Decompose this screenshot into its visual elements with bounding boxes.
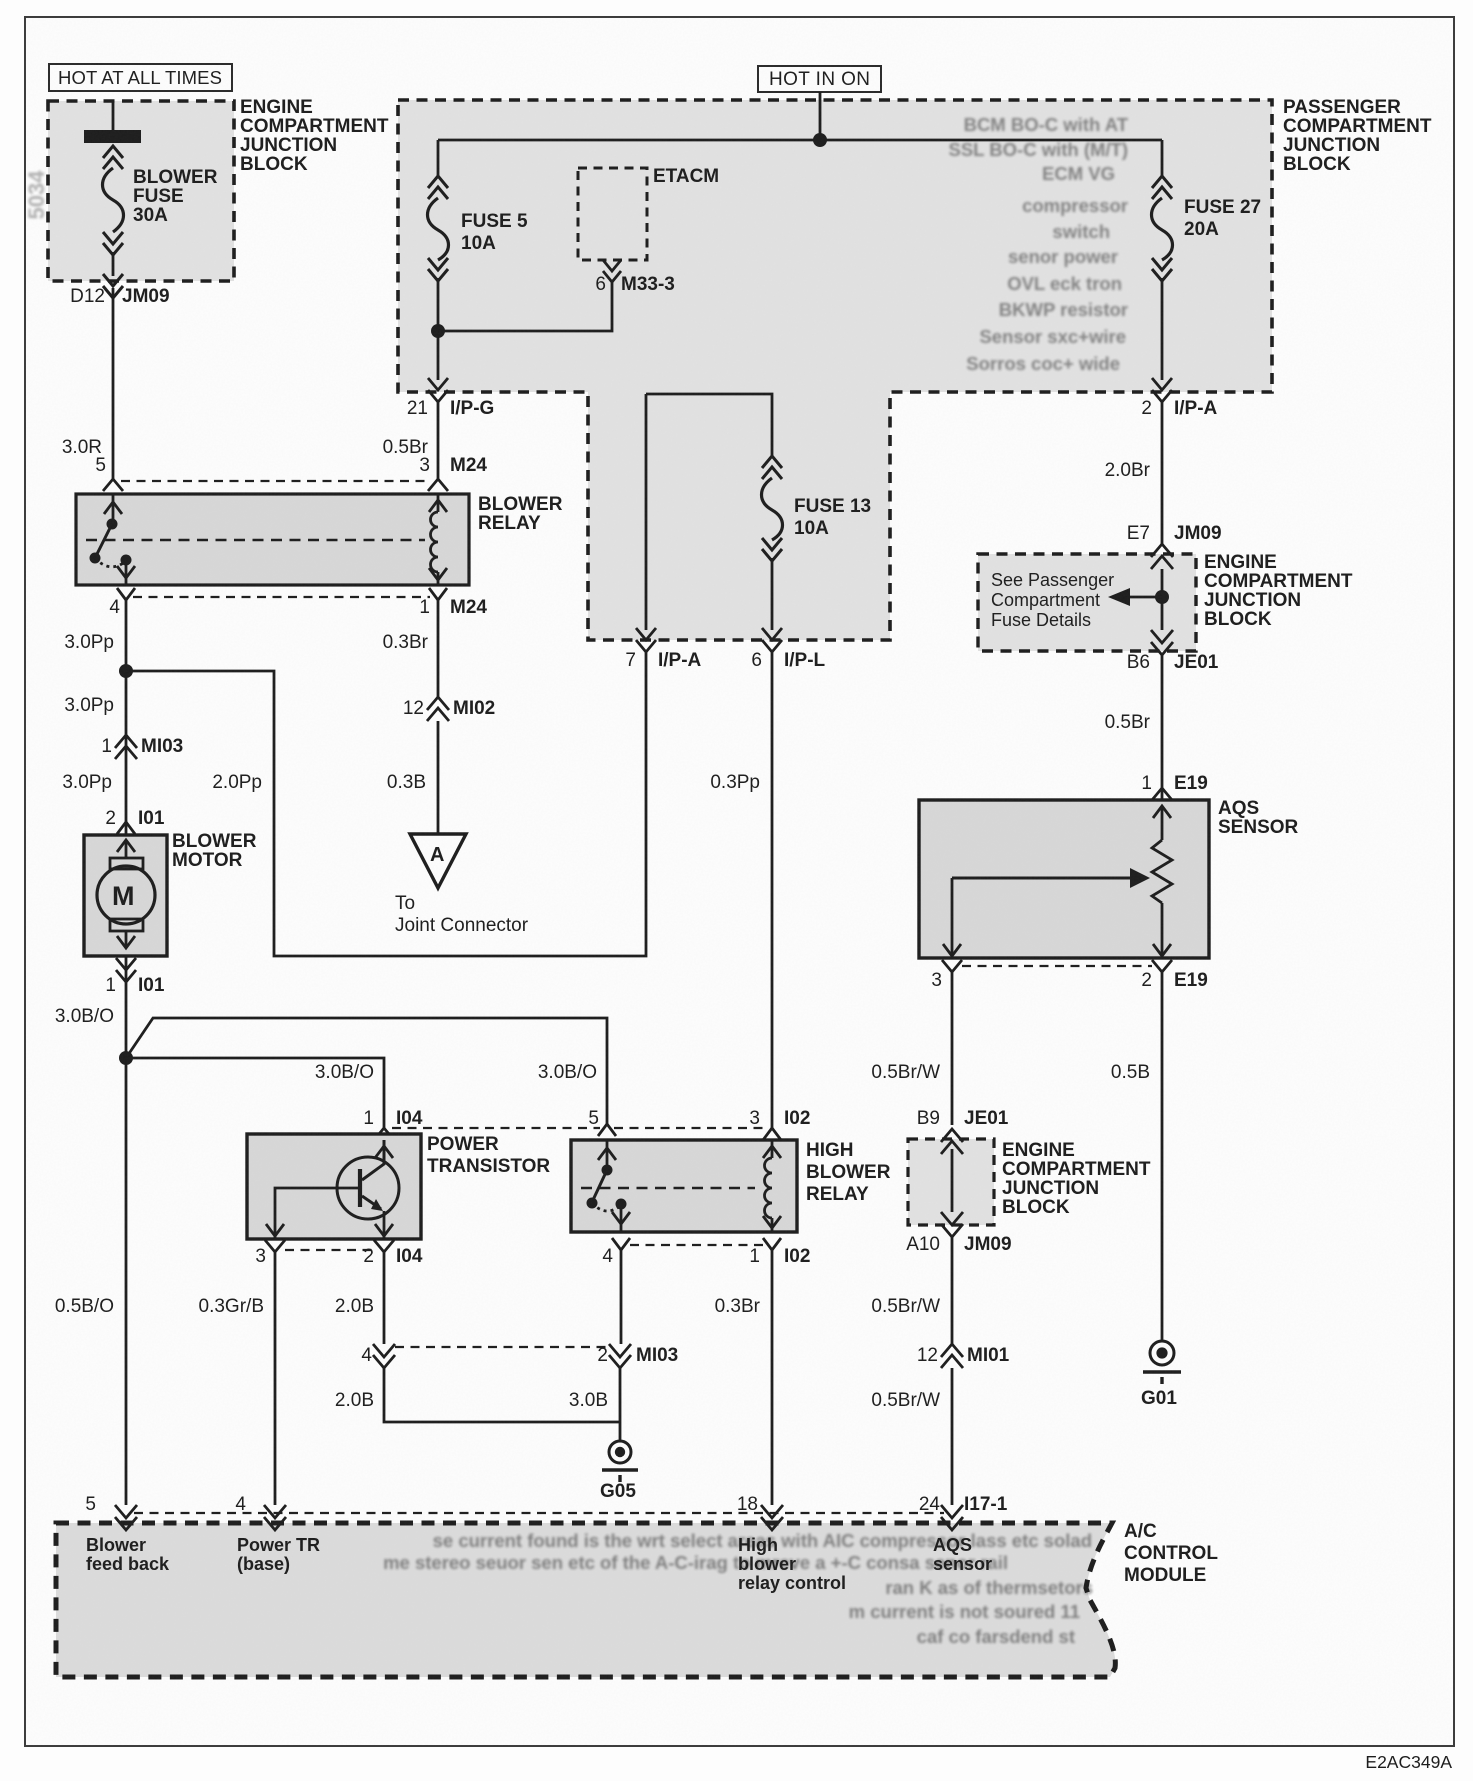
wire 0.5B pin2 down to G01 — [1161, 972, 1164, 1340]
fuse 5 10A — [428, 140, 449, 331]
connector B9 chevrons — [941, 1129, 963, 1154]
label ENGINE COMPARTMENT JUNCTION BLOCK — [1002, 1140, 1151, 1218]
label See Passenger Compartment Fuse Details — [991, 570, 1114, 630]
label 0.3Pp — [710, 772, 760, 793]
junction node 3.0B/O — [119, 1051, 133, 1065]
fuse 13 branch top wire — [646, 394, 772, 456]
wire M24 pin1 to MI02 to joint connector — [437, 600, 440, 834]
label 7 I/P-A 6 I/P-L — [625, 650, 825, 671]
pin 6 I/P-L exit — [762, 628, 782, 652]
wire 0.5Br 21 to relay pin3 — [437, 402, 440, 480]
label 0.5Br/W 0.5B — [871, 1062, 1150, 1083]
label G01 — [1141, 1388, 1177, 1409]
high blower relay lower pin dashed row — [630, 1244, 763, 1246]
junction node in block — [1155, 590, 1169, 604]
label 2.0Br — [1105, 460, 1151, 481]
connector 1 E19 — [1141, 773, 1207, 794]
label 2.0B 3.0B — [335, 1390, 608, 1411]
transistor lower pin dashed row — [285, 1249, 374, 1251]
label Blower feed back — [86, 1535, 170, 1574]
module pin 4 chevrons — [264, 1505, 286, 1530]
label BLOWER FUSE 30A — [133, 167, 218, 226]
high blower relay switch — [587, 1140, 631, 1232]
high blower relay pin 5 chevron — [598, 1124, 616, 1136]
wire 0.5Br/W down to module pin 24 — [951, 1368, 954, 1505]
label 4 1 M24 — [109, 597, 487, 618]
engine compartment junction block (see passenger) — [978, 554, 1196, 651]
wire 2.0Pp branch to pin7 I/P-A — [126, 652, 646, 956]
wire fuse5 node to pin 21 — [437, 331, 440, 380]
pin 2 E19 exit chevron — [1152, 960, 1172, 972]
label AQS SENSOR — [1218, 798, 1299, 838]
pin 4 exit chevron — [612, 1238, 630, 1250]
module pin 5 chevrons — [115, 1505, 137, 1530]
connector A10 JM09 — [941, 1212, 963, 1237]
connector MI02 — [427, 697, 449, 721]
label 4 1 I02 — [602, 1246, 810, 1267]
passenger compartment junction block region — [398, 100, 1272, 640]
label A/C CONTROL MODULE — [1124, 1521, 1218, 1586]
label 0.5B/O 5 — [55, 1296, 114, 1515]
power transistor box — [247, 1134, 421, 1239]
label FUSE 5 10A — [461, 211, 528, 254]
blower fuse 30A — [84, 101, 141, 298]
AQS lower pin dashed row — [962, 965, 1152, 967]
label A10 JM09 — [906, 1234, 1011, 1255]
power transistor pin row dashed — [392, 1127, 764, 1129]
pin 2 I/P-A exit — [1152, 378, 1172, 402]
pin 1 I02 exit chevron — [763, 1238, 781, 1250]
AQS sensor internals — [943, 806, 1172, 958]
HOT IN ON tag — [758, 66, 881, 92]
wire 3.0B/O to high blower relay pin5 — [126, 1018, 607, 1124]
junction node 3.0Pp branch — [119, 664, 133, 678]
pin 1 I01 exit — [116, 958, 136, 982]
wire 2.0Br pin2 I/P-A down — [1161, 402, 1164, 545]
connector 4 / 2 MI03 dashed row — [395, 1346, 608, 1348]
label BLOWER MOTOR — [172, 831, 257, 871]
label ETACM — [653, 166, 719, 187]
label High blower relay control — [738, 1535, 846, 1593]
label 1 MI03 — [101, 736, 183, 757]
label 21 I/P-G — [407, 398, 494, 419]
connector D12 JM09 — [70, 286, 169, 307]
pin 7 I/P-A exit — [636, 628, 656, 652]
label 3 2 I04 — [255, 1246, 422, 1267]
ground G05 — [602, 1441, 638, 1482]
bus wire — [438, 139, 1162, 142]
label 3.0B/O — [55, 1006, 114, 1027]
label 2 I/P-A — [1141, 398, 1217, 419]
relay mid dashed line — [86, 539, 425, 541]
pin 1 I04 connector — [363, 1108, 422, 1129]
blower relay pin row dashed — [121, 480, 430, 482]
label 5 3 I02 — [588, 1108, 810, 1129]
label 3 2 E19 — [931, 970, 1207, 991]
wire 2.0B pin2 down — [383, 1252, 386, 1344]
blower motor symbol — [97, 840, 155, 948]
diagram code E2AC349A — [1365, 1752, 1452, 1772]
wire 3.0B/O to power transistor pin1 — [126, 1058, 384, 1128]
label 0.3Gr/B 2.0B 4 — [199, 1296, 374, 1515]
connector E7 chevrons — [1151, 544, 1173, 569]
label B6 JE01 — [1127, 652, 1219, 673]
pin 21 I/P-G exit — [428, 378, 448, 402]
label 6 M33-3 — [595, 274, 674, 295]
wire from HOT IN ON to bus — [819, 92, 822, 140]
wire 3.0B to ground G05 — [619, 1368, 622, 1441]
label 12 MI01 — [917, 1345, 1010, 1366]
label 3.0B/O 3.0B/O — [315, 1062, 597, 1083]
module pin 24 chevrons — [941, 1505, 963, 1530]
connector 6 M33-3 — [603, 260, 621, 282]
wire 2.0B to ground join — [384, 1368, 620, 1422]
label Power TR (base) — [237, 1535, 320, 1574]
wire relay pin4 down — [125, 600, 128, 1505]
transistor exit chevrons pins 3 and 2 — [265, 1224, 394, 1252]
connector 4 chevrons — [373, 1344, 395, 1368]
label 3.0Pp 3.0Pp 2.0Pp — [62, 695, 262, 793]
label G05 — [600, 1481, 636, 1502]
label PASSENGER COMPARTMENT JUNCTION BLOCK — [1283, 97, 1432, 175]
wire pin4 3.0B to MI03 — [620, 1250, 623, 1344]
connector 2 I01 — [105, 808, 164, 829]
wire through block — [951, 1149, 954, 1212]
label A — [430, 844, 444, 866]
label 0.5Br/W — [871, 1296, 940, 1317]
label ENGINE COMPARTMENT JUNCTION BLOCK — [240, 97, 389, 175]
label ENGINE COMPARTMENT JUNCTION BLOCK — [1204, 552, 1353, 630]
high blower relay pin 3 I02 chevron — [763, 1128, 781, 1140]
label 0.3B — [387, 772, 426, 793]
label 3.0Pp 0.3Br — [64, 632, 428, 653]
high blower relay mid dashed line — [581, 1187, 755, 1189]
label FUSE 13 10A — [794, 496, 871, 539]
label 0.5Br 3 M24 — [383, 437, 488, 476]
label HOT IN ON — [769, 69, 870, 90]
label 4 2 MI03 — [361, 1345, 678, 1366]
junction node on bus — [813, 133, 827, 147]
label 0.3Br 18 — [715, 1296, 761, 1515]
AQS sensor box — [919, 800, 1209, 958]
blower relay box — [76, 494, 469, 585]
wire through block — [1161, 569, 1164, 630]
label AQS sensor — [933, 1535, 992, 1574]
module pin 18 chevrons — [761, 1505, 783, 1530]
label 3.0R 5 — [62, 437, 106, 476]
junction node fuse5/M33-3 — [431, 324, 445, 338]
blower relay pin 5 chevron — [103, 479, 123, 491]
label To Joint Connector — [395, 893, 529, 936]
HOT AT ALL TIMES tag — [49, 64, 232, 91]
fuse 13 10A — [762, 456, 783, 630]
engine compartment junction block (B9/A10) — [908, 1139, 994, 1225]
label HOT AT ALL TIMES — [58, 67, 222, 88]
connector E7 JM09 — [1127, 523, 1222, 544]
relay switch — [90, 494, 136, 585]
engine compartment junction block (top-left) — [48, 101, 234, 281]
A/C control module body — [56, 1523, 1115, 1677]
wire I/P-L pin6 to high blower relay pin3 — [771, 652, 774, 1128]
wire 0.5Br/W down — [951, 1237, 954, 1344]
label POWER TRANSISTOR — [427, 1134, 550, 1177]
high blower relay box — [571, 1140, 797, 1232]
high blower relay coil — [763, 1140, 781, 1232]
pin 1 connector — [429, 588, 447, 600]
connector 1 MI03 — [115, 735, 137, 759]
wire 0.5Br to AQS pin1 — [1161, 655, 1164, 800]
wire pin1 0.3Br down to module pin 18 — [771, 1250, 774, 1505]
label 0.5Br/W 24 I17-1 — [871, 1390, 1007, 1515]
label HIGH BLOWER RELAY — [806, 1140, 891, 1205]
wire 0.3Gr/B pin3 down to module pin 4 — [274, 1252, 277, 1505]
ETACM box — [578, 168, 647, 260]
connector B6 JE01 — [1151, 630, 1173, 655]
connector 12 MI01 — [941, 1344, 963, 1368]
blower motor box — [84, 835, 167, 956]
fuse 27 20A — [1152, 140, 1173, 380]
wire D12 to blower relay — [112, 288, 115, 480]
label 1 I01 — [105, 975, 164, 996]
connector B9 JE01 — [917, 1108, 1009, 1129]
label 0.5Br — [1105, 712, 1151, 733]
ground G01 — [1143, 1341, 1181, 1384]
wire M33-3 to fuse5 node — [438, 282, 612, 331]
svg-text:E2AC349A: E2AC349A — [1365, 1752, 1452, 1772]
pin 4 connector — [117, 588, 135, 600]
relay lower pin dashed row — [133, 596, 430, 598]
wire 0.5Br/W pin3 down — [951, 972, 954, 1125]
pin 3 exit chevron — [942, 960, 962, 972]
arrow to fuse details — [1130, 596, 1162, 599]
connector 2 MI03 chevrons — [609, 1344, 631, 1368]
relay coil — [428, 479, 448, 585]
label M — [112, 881, 135, 911]
label 12 MI02 — [403, 698, 495, 719]
module pin row dashed line — [134, 1512, 944, 1514]
joint connector triangle A — [410, 834, 466, 888]
label BLOWER RELAY — [478, 494, 563, 534]
label FUSE 27 20A — [1184, 197, 1261, 240]
transistor Q symbol — [275, 1140, 399, 1239]
wire pin7 riser — [645, 394, 648, 630]
